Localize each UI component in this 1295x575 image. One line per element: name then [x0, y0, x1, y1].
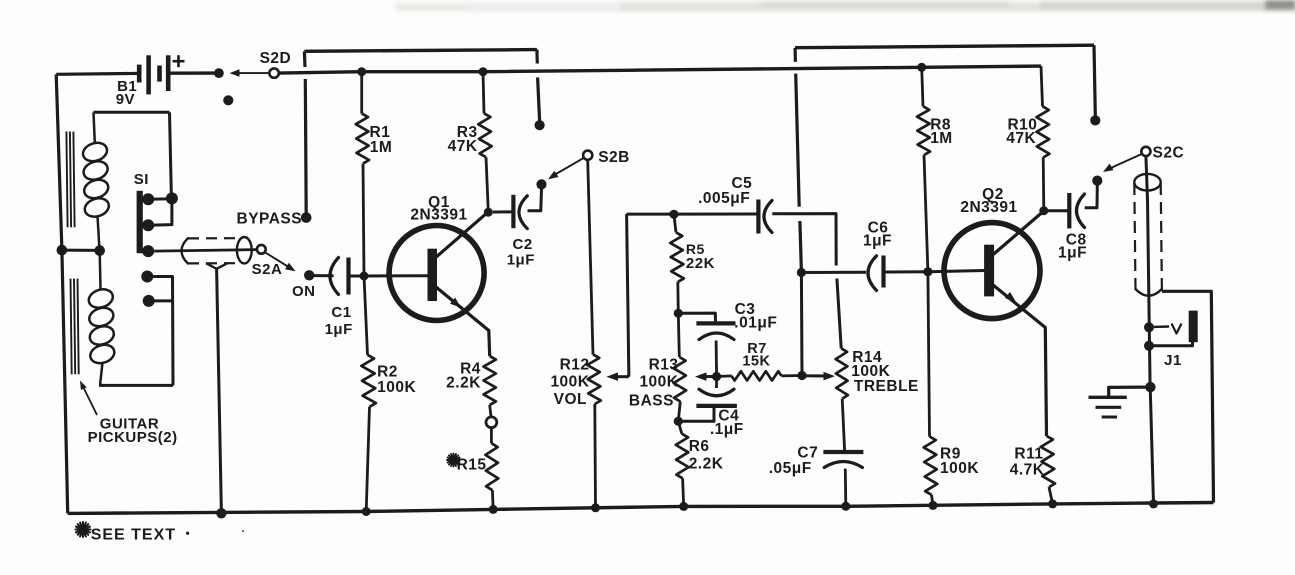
label Q2 type — [960, 199, 1017, 216]
wire R8 top lead — [922, 67, 923, 106]
wire R6 bottom lead — [683, 478, 684, 506]
label C7 — [797, 444, 818, 461]
capacitor C2 straight plate — [511, 195, 515, 228]
wire R11 bottom lead — [1049, 487, 1053, 504]
wire R1 bottom lead — [363, 164, 364, 276]
svg-text:1μF: 1μF — [507, 252, 535, 269]
svg-text:1μF: 1μF — [1058, 244, 1087, 261]
node R13 top junction — [674, 309, 683, 318]
label C2 — [513, 236, 533, 253]
label C7 value — [769, 460, 812, 477]
label R10 value — [1006, 130, 1036, 147]
connector circle between R4 and R15 — [486, 417, 497, 428]
capacitor C4 straight plate — [696, 404, 737, 408]
svg-text:PICKUPS(2): PICKUPS(2) — [88, 429, 178, 446]
svg-text:2.2K: 2.2K — [689, 455, 724, 472]
label S1 — [134, 171, 149, 188]
capacitor C5 curved plate — [764, 201, 772, 233]
svg-text:.05μF: .05μF — [769, 460, 812, 477]
wire junction connector — [62, 249, 100, 252]
wire R3 top lead — [483, 72, 484, 114]
wire junction to C6 — [801, 271, 866, 274]
label S2D — [260, 50, 292, 67]
wire J1 sleeve to right rail — [1162, 291, 1214, 502]
wire R12 bottom lead — [593, 404, 597, 508]
node S2C upper contact dot — [1090, 115, 1100, 125]
wire C4 top lead — [715, 377, 718, 389]
wire shield to bottom rail — [217, 269, 222, 514]
jack J1 terminal bar — [1189, 311, 1198, 343]
wire R12 wiper riser — [627, 214, 629, 377]
resistor R4 — [484, 356, 496, 405]
wire R4 to R15 circle — [490, 405, 491, 417]
battery plus sign — [173, 55, 185, 67]
resistor R10 — [1037, 106, 1050, 157]
switch S2A pivot — [257, 245, 266, 254]
R14 wiper arrow — [802, 372, 835, 381]
label R4 value — [446, 375, 481, 392]
label S2A — [252, 261, 283, 278]
wire left vertical (battery negative to bottom rail) — [56, 74, 67, 513]
wire bracket from bypass line to S2B contact — [304, 50, 539, 121]
label C1 value — [325, 321, 353, 338]
node S2B upper contact dot — [535, 120, 545, 130]
svg-text:R6: R6 — [689, 438, 710, 455]
svg-text:.1μF: .1μF — [710, 421, 744, 438]
svg-text:22K: 22K — [686, 255, 715, 272]
wire R2 bottom lead — [366, 407, 369, 512]
label C5 — [731, 175, 752, 192]
label ON — [292, 283, 316, 300]
node junction left wire to coils — [57, 245, 68, 256]
wire cable centre conductor — [154, 250, 257, 252]
capacitor C6 curved plate — [868, 256, 877, 291]
node R8 top — [917, 63, 926, 72]
wire bottom rail — [68, 503, 1214, 514]
wire R13 top lead — [678, 313, 679, 357]
resistor R13 — [673, 357, 686, 402]
node S2D alternate contact dot — [223, 95, 233, 105]
node R6 bottom — [679, 502, 688, 511]
wire R15 bottom lead — [491, 490, 495, 509]
capacitor C1 curved plate — [330, 258, 339, 295]
node Q2 base junction — [923, 267, 932, 276]
capacitor C7 straight plate — [823, 450, 863, 454]
wire C2 to S2B contact — [528, 189, 542, 211]
wire collector to C2 — [493, 210, 514, 213]
svg-text:J1: J1 — [1164, 352, 1182, 369]
svg-text:100K: 100K — [550, 374, 589, 391]
resistor R1 — [356, 114, 369, 164]
S2C switch arm — [1103, 154, 1143, 173]
label R9 value — [940, 460, 979, 477]
label S2B — [598, 149, 630, 166]
label BYPASS — [237, 211, 303, 228]
R13 wiper arrow — [695, 372, 717, 381]
wire C7 bottom lead — [844, 469, 847, 507]
svg-text:1M: 1M — [370, 139, 393, 156]
node J1 second contact dot — [1144, 341, 1154, 351]
node R9 bottom — [929, 501, 938, 510]
label BASS — [629, 393, 674, 410]
wire Q1 base lead — [364, 274, 428, 277]
label R7 value — [742, 354, 770, 370]
label R8 value — [930, 130, 953, 147]
switch S2C pivot — [1141, 147, 1150, 156]
label R1 — [370, 124, 391, 141]
wire R14 bottom lead — [842, 399, 844, 451]
svg-text:C7: C7 — [797, 444, 818, 461]
wire R4 top lead — [488, 355, 491, 358]
node S1 lower contact 5 — [143, 295, 155, 307]
label C1 — [331, 304, 351, 321]
wire R6 top lead — [678, 421, 682, 434]
pickup 1 core lines — [66, 132, 74, 228]
cable shield tap — [206, 263, 228, 269]
node R12 bottom — [591, 503, 600, 512]
transistor Q1 emitter arrow — [450, 298, 461, 308]
node S2B lower contact dot — [536, 179, 546, 189]
node R7 right junction — [797, 371, 806, 380]
transistor Q2 emitter arrow — [1005, 292, 1016, 302]
node R3 top — [479, 67, 488, 76]
wire C6 to Q2 base node — [884, 270, 928, 273]
wire bracket2 vertical (breaks at rail and C5 wire) — [795, 48, 801, 273]
svg-text:BYPASS: BYPASS — [237, 211, 303, 228]
label R5 — [686, 241, 705, 257]
label Q2 — [982, 186, 1004, 203]
wire R7 left lead — [717, 374, 732, 377]
transistor Q1 collector line — [435, 212, 488, 258]
wire bracket2 top — [795, 45, 1095, 115]
node Q1 base junction — [360, 272, 369, 281]
jack J1 body ellipse — [1134, 174, 1160, 191]
wire C5 output to R14 (breaks at C6 node wire) — [772, 214, 841, 349]
wire R7 right lead — [781, 374, 802, 377]
wire C3 bottom lead — [715, 341, 718, 377]
label C2 value — [507, 252, 535, 269]
svg-text:2N3391: 2N3391 — [960, 199, 1017, 216]
node S1 lower contact 4 — [141, 271, 153, 283]
label C5 value — [698, 190, 750, 207]
svg-text:2N3391: 2N3391 — [410, 207, 467, 224]
resistor R6 — [676, 434, 689, 479]
wire C8 to S2C contact — [1085, 185, 1098, 208]
wire junction down to R7 — [800, 273, 804, 376]
label 9V — [116, 91, 135, 108]
label TREBLE — [854, 378, 919, 395]
label R3 value — [448, 138, 478, 155]
resistor R15 — [485, 443, 498, 490]
node R13 bottom junction — [674, 417, 683, 426]
wire Q2 base lead — [928, 271, 985, 272]
node J1 bottom — [1149, 499, 1158, 508]
capacitor C3 curved plate — [699, 333, 734, 340]
asterisk see-text — [76, 522, 91, 537]
transistor Q1 base bar — [428, 249, 438, 301]
transistor Q2 circle — [944, 223, 1040, 319]
label Q1 type — [410, 207, 467, 224]
svg-text:R15: R15 — [457, 456, 487, 473]
label R8 — [930, 116, 951, 133]
label R6 value — [689, 455, 724, 472]
label S2C — [1153, 144, 1185, 161]
node R5 top junction — [669, 210, 678, 219]
svg-text:C1: C1 — [331, 304, 351, 321]
svg-text:TREBLE: TREBLE — [854, 378, 919, 395]
capacitor C1 straight plate — [346, 258, 350, 295]
wire R9 bottom lead — [932, 495, 934, 506]
transistor Q2 base bar — [984, 245, 994, 297]
svg-text:15K: 15K — [742, 354, 770, 370]
capacitor C2 curved plate — [519, 196, 527, 229]
wire ON dot to C1 — [314, 274, 334, 277]
label R5 value — [686, 255, 715, 272]
resistor R8 — [917, 106, 930, 155]
node Q2 collector junction — [1039, 206, 1048, 215]
wire R10 top lead — [1041, 66, 1043, 106]
svg-text:S2A: S2A — [252, 261, 283, 278]
node ground junction — [1145, 382, 1155, 392]
label C6 — [868, 219, 889, 236]
svg-text:4.7K: 4.7K — [1010, 462, 1045, 479]
resistor R11 — [1041, 436, 1055, 487]
capacitor C5 straight plate — [756, 200, 760, 234]
R12 wiper arrow — [607, 372, 629, 381]
svg-text:S2B: S2B — [598, 149, 630, 166]
transistor Q1 emitter line — [436, 287, 490, 356]
svg-text:ON: ON — [292, 283, 316, 300]
resistor R12 — [587, 354, 601, 404]
label R12 — [560, 356, 590, 373]
wire R5 bottom lead — [676, 282, 679, 313]
label R2 — [377, 363, 398, 380]
node junction coil column — [94, 245, 105, 256]
wire C4 to R13 bottom — [678, 408, 714, 421]
svg-text:R13: R13 — [649, 356, 679, 373]
svg-text:1μF: 1μF — [325, 321, 353, 338]
wire bypass vertical (crosses rail, breaks) — [304, 51, 306, 214]
node R11 bottom — [1048, 499, 1057, 508]
svg-text:.01μF: .01μF — [734, 314, 777, 331]
resistor R5 — [670, 232, 684, 282]
wire C1 to base node — [349, 275, 365, 278]
speck — [186, 530, 244, 535]
wire R8 bottom lead — [924, 155, 928, 272]
label R14 value — [851, 363, 890, 380]
resistor R9 — [924, 437, 938, 495]
wire J1 second contact to bar — [1149, 342, 1193, 346]
S2A switch arm — [265, 252, 296, 271]
label C4 — [718, 407, 739, 424]
label R13 — [649, 356, 679, 373]
svg-text:1μF: 1μF — [863, 233, 892, 250]
cable shield right ellipse — [237, 237, 252, 263]
switch S2D pivot — [269, 68, 278, 77]
node R15 bottom — [489, 505, 498, 514]
label R6 — [689, 438, 710, 455]
wire battery negative lead — [56, 72, 139, 76]
label R10 — [1007, 116, 1037, 133]
resistor R7 — [732, 371, 782, 380]
wire R5 node to C5 — [674, 213, 759, 216]
transistor Q2 collector line — [992, 211, 1044, 256]
node J1 tip contact dot — [1144, 322, 1154, 332]
jack J1 body dashed left — [1134, 183, 1135, 291]
node C6 input junction — [797, 268, 806, 277]
transistor Q1 circle — [389, 226, 484, 321]
svg-text:2.2K: 2.2K — [446, 375, 481, 392]
resistor R2 — [361, 355, 376, 407]
cable shield dashed top — [188, 237, 237, 239]
label Q1 — [428, 194, 450, 211]
node S1 contact 3 — [142, 245, 154, 257]
node C7 bottom — [841, 502, 850, 511]
switch S2B pivot — [583, 151, 592, 160]
ground symbol — [1089, 397, 1127, 417]
capacitor C7 curved plate — [824, 462, 862, 468]
svg-text:R12: R12 — [560, 356, 590, 373]
node S1 right post — [166, 192, 178, 204]
wire R13 mid lead — [678, 402, 680, 422]
jack J1 body bottom arc — [1136, 289, 1162, 296]
svg-text:R11: R11 — [1014, 446, 1043, 463]
wire C3 top connection — [678, 313, 715, 321]
battery B1 — [139, 55, 168, 94]
svg-text:47K: 47K — [1006, 130, 1036, 147]
wire R2 top lead — [364, 276, 368, 355]
capacitor C6 straight plate — [881, 256, 885, 288]
label R12 value — [550, 374, 589, 391]
label R13 value — [639, 374, 678, 391]
node tone wiper junction — [712, 372, 721, 381]
node R2 bottom — [362, 507, 371, 516]
svg-text:SEE TEXT: SEE TEXT — [91, 527, 176, 544]
node S1 contact 1 — [142, 193, 154, 205]
label C4 value — [710, 421, 744, 438]
wire Q2 collector to C8 — [1048, 209, 1069, 212]
capacitor C8 straight plate — [1067, 193, 1071, 228]
wire R15 top lead — [490, 428, 493, 443]
node ON contact dot — [304, 270, 314, 280]
S2D switch arm arrow — [230, 69, 270, 77]
svg-text:100K: 100K — [639, 374, 678, 391]
capacitor C8 curved plate — [1077, 194, 1085, 228]
label GUITAR — [100, 416, 159, 433]
label R4 — [460, 361, 481, 378]
label J1 — [1164, 352, 1182, 369]
label R3 — [457, 124, 478, 141]
transistor Q2 emitter line — [993, 285, 1047, 437]
wire S2B to R12 — [588, 160, 593, 355]
pickup 1 coil — [81, 112, 112, 250]
label R9 — [940, 445, 961, 462]
svg-text:S2D: S2D — [260, 50, 292, 67]
asterisk R15 — [447, 454, 460, 467]
switch S1 bar — [137, 191, 143, 253]
node S2C lower contact dot — [1092, 176, 1102, 186]
wire S1 strap — [148, 199, 172, 226]
label C6 value — [863, 233, 892, 250]
J1 tip contact V mark — [1154, 324, 1182, 334]
wire R1 top lead — [360, 72, 363, 114]
pickup 2 coil — [86, 251, 116, 386]
label C8 — [1066, 232, 1087, 249]
svg-text:C2: C2 — [513, 236, 533, 253]
svg-text:.005μF: .005μF — [698, 190, 750, 207]
svg-text:47K: 47K — [448, 138, 478, 155]
jack J1 body dashed right — [1161, 183, 1162, 291]
wire pickup 2 bottom — [99, 384, 173, 387]
svg-text:BASS: BASS — [629, 393, 674, 410]
wire S1 lower contacts to pickup 2 — [147, 277, 173, 386]
label R11 value — [1010, 462, 1045, 479]
label R15 — [457, 456, 487, 473]
label C3 value — [734, 314, 777, 331]
wire to ground — [1109, 387, 1151, 396]
label R2 value — [377, 379, 416, 396]
svg-text:100K: 100K — [940, 460, 979, 477]
label SEE TEXT — [91, 527, 176, 544]
wire R9 top lead — [928, 272, 930, 437]
cable shield dashed bottom — [188, 262, 237, 264]
node shield line bottom — [216, 508, 226, 518]
node S1 contact 2 — [142, 219, 154, 231]
node R1 top — [357, 67, 366, 76]
svg-text:R2: R2 — [377, 363, 398, 380]
capacitor C3 straight plate — [696, 321, 735, 325]
S2B switch arm — [548, 158, 584, 180]
label B1 — [117, 78, 137, 95]
cable shield left arc — [182, 238, 188, 263]
svg-text:SI: SI — [134, 171, 149, 188]
label PICKUPS(2) — [88, 429, 178, 446]
svg-text:1M: 1M — [930, 130, 953, 147]
node BYPASS dot — [301, 212, 312, 223]
wire node to R5 top — [627, 213, 674, 216]
node Q1 collector junction — [484, 208, 493, 217]
node S2D contact dot — [214, 68, 224, 78]
wire R3 bottom lead — [486, 157, 488, 212]
wire R5 top lead — [674, 214, 676, 232]
svg-text:9V: 9V — [116, 91, 135, 108]
capacitor C4 curved plate — [699, 389, 734, 396]
svg-text:100K: 100K — [377, 379, 416, 396]
wire R10 bottom lead — [1042, 157, 1045, 210]
pickup callout arrow — [80, 381, 97, 416]
label R7 — [747, 341, 767, 357]
svg-text:S2C: S2C — [1153, 144, 1185, 161]
wire battery positive to S2D contact — [168, 71, 219, 74]
label VOL — [554, 391, 587, 408]
label C3 — [735, 301, 756, 318]
svg-text:VOL: VOL — [554, 391, 587, 408]
resistor R3 — [478, 113, 491, 157]
pickup 2 core lines — [71, 279, 79, 375]
resistor R14 — [836, 348, 848, 398]
label R14 — [852, 349, 882, 366]
label R11 — [1014, 446, 1043, 463]
jack J1 centre conductor — [1146, 156, 1154, 504]
wire main supply rail — [279, 66, 1041, 73]
label C8 value — [1058, 244, 1087, 261]
wire pickup 1 top to S1 — [94, 112, 172, 194]
label R1 value — [370, 139, 393, 156]
